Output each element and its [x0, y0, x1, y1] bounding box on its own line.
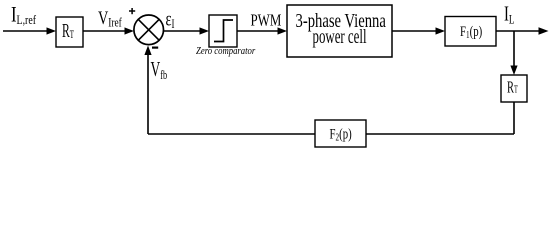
svg-text:PWM: PWM — [251, 12, 282, 30]
block R_T (R1) — [56, 17, 83, 47]
feedback rail right segment — [366, 133, 514, 135]
label V_Iref — [98, 7, 122, 30]
wire to zero comparator — [164, 27, 210, 34]
wire down from R_T2 to rail — [513, 102, 515, 134]
block R_T (R2) — [501, 75, 527, 102]
label I_L — [504, 2, 515, 27]
wire feedback up to summing junction with arrow — [144, 46, 151, 135]
minus sign — [152, 46, 158, 48]
label PWM — [251, 12, 282, 30]
label V_fb — [151, 57, 168, 83]
summing junction — [134, 15, 164, 45]
label epsilon_I — [166, 7, 175, 32]
label I_L,ref — [11, 4, 36, 28]
block F2(p) — [315, 120, 366, 147]
wire input with arrow — [3, 27, 56, 34]
svg-text:Zero comparator: Zero comparator — [196, 46, 256, 57]
svg-text:F1(p): F1(p) — [460, 22, 482, 40]
wire to F1 with arrow — [392, 27, 445, 34]
wire branch down to R_T2 with arrow — [510, 31, 517, 75]
output wire I_L with arrow — [496, 27, 549, 35]
svg-text:F2(p): F2(p) — [330, 125, 352, 143]
wire PWM with arrow — [237, 27, 287, 34]
block F1(p) — [445, 17, 496, 47]
svg-text:power cell: power cell — [313, 25, 367, 48]
zero comparator block — [209, 15, 237, 47]
wire V_Iref with arrow — [83, 27, 134, 34]
plus sign — [129, 8, 135, 14]
label Zero comparator — [196, 46, 256, 57]
block 3-phase Vienna power cell — [287, 5, 392, 57]
feedback rail left segment — [148, 133, 315, 135]
